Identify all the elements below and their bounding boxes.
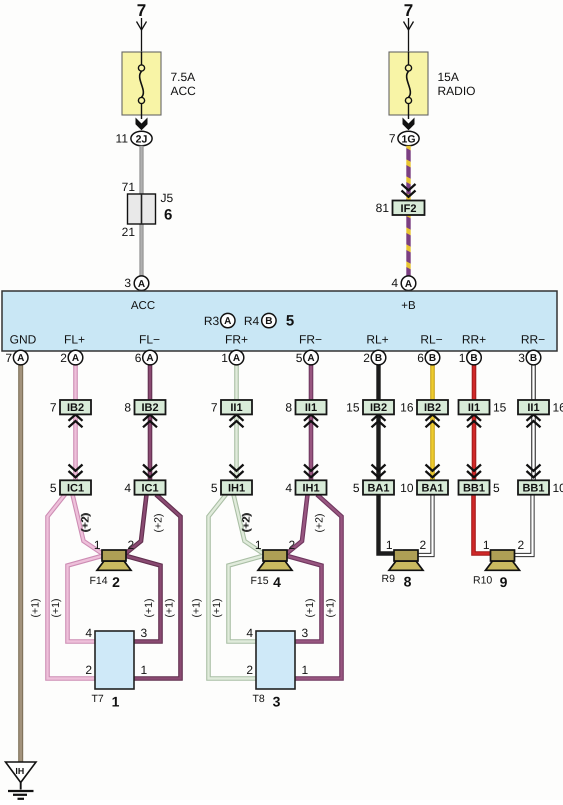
svg-text:8: 8 <box>124 401 131 415</box>
svg-text:(+1): (+1) <box>191 599 203 618</box>
svg-text:1: 1 <box>483 538 490 552</box>
svg-text:II1: II1 <box>468 402 480 414</box>
svg-text:RL−: RL− <box>420 333 442 347</box>
svg-text:IB2: IB2 <box>424 402 441 414</box>
svg-text:F14: F14 <box>90 575 108 587</box>
svg-text:2: 2 <box>128 538 135 552</box>
svg-text:ACC: ACC <box>131 300 155 312</box>
svg-text:3: 3 <box>124 276 131 290</box>
svg-text:FR+: FR+ <box>225 333 248 347</box>
svg-text:+B: +B <box>401 300 416 312</box>
svg-text:15: 15 <box>346 401 360 415</box>
svg-text:1: 1 <box>94 538 101 552</box>
svg-text:7: 7 <box>404 1 413 20</box>
svg-text:7: 7 <box>211 401 218 415</box>
svg-text:6: 6 <box>164 207 172 224</box>
svg-text:(+2): (+2) <box>314 514 326 533</box>
svg-text:IB2: IB2 <box>67 402 84 414</box>
svg-text:BA1: BA1 <box>367 483 389 495</box>
svg-text:(+1): (+1) <box>325 599 337 618</box>
svg-text:2: 2 <box>246 663 253 677</box>
svg-text:5: 5 <box>296 351 303 365</box>
svg-text:1: 1 <box>221 351 228 365</box>
svg-text:A: A <box>307 353 314 364</box>
svg-text:IH1: IH1 <box>302 483 319 495</box>
svg-text:2: 2 <box>289 538 296 552</box>
svg-text:5: 5 <box>50 481 57 495</box>
svg-text:II1: II1 <box>305 402 317 414</box>
svg-text:(+2): (+2) <box>153 514 165 533</box>
svg-text:J5: J5 <box>161 191 174 205</box>
svg-text:5: 5 <box>353 481 360 495</box>
svg-text:4: 4 <box>285 481 292 495</box>
svg-text:A: A <box>146 353 153 364</box>
svg-text:II1: II1 <box>230 402 242 414</box>
svg-text:IB2: IB2 <box>141 402 158 414</box>
svg-text:IH: IH <box>15 766 24 776</box>
svg-text:15A: 15A <box>438 70 459 84</box>
svg-text:2: 2 <box>112 574 120 590</box>
svg-text:B: B <box>265 316 272 327</box>
svg-text:RADIO: RADIO <box>438 84 476 98</box>
svg-text:T7: T7 <box>92 693 104 705</box>
svg-text:1: 1 <box>386 538 393 552</box>
svg-text:1: 1 <box>459 351 466 365</box>
svg-text:T8: T8 <box>253 693 265 705</box>
svg-text:5: 5 <box>493 481 500 495</box>
svg-text:2: 2 <box>60 351 67 365</box>
svg-text:7: 7 <box>50 401 57 415</box>
svg-text:A: A <box>233 353 240 364</box>
svg-text:(+1): (+1) <box>143 599 155 618</box>
svg-text:FL+: FL+ <box>64 333 85 347</box>
svg-text:4: 4 <box>273 574 281 590</box>
svg-text:IH1: IH1 <box>228 483 245 495</box>
svg-text:8: 8 <box>404 574 412 590</box>
svg-text:71: 71 <box>122 180 136 194</box>
svg-text:1: 1 <box>255 538 262 552</box>
svg-text:2J: 2J <box>136 133 148 145</box>
svg-text:R10: R10 <box>473 575 492 587</box>
svg-text:(+2): (+2) <box>241 514 253 533</box>
svg-text:7: 7 <box>5 351 12 365</box>
svg-text:(+2): (+2) <box>80 514 92 533</box>
svg-text:R9: R9 <box>382 573 396 585</box>
svg-text:21: 21 <box>122 225 136 239</box>
svg-text:B: B <box>470 353 477 364</box>
svg-text:R3: R3 <box>204 314 220 328</box>
svg-text:A: A <box>17 353 24 364</box>
svg-text:ACC: ACC <box>171 84 197 98</box>
svg-text:10: 10 <box>400 481 414 495</box>
svg-text:(+1): (+1) <box>164 599 176 618</box>
svg-text:7: 7 <box>137 1 146 20</box>
svg-text:RR−: RR− <box>521 333 545 347</box>
svg-text:IC1: IC1 <box>67 483 84 495</box>
svg-text:IB2: IB2 <box>370 402 387 414</box>
svg-text:(+1): (+1) <box>30 599 42 618</box>
svg-text:5: 5 <box>211 481 218 495</box>
svg-text:BB1: BB1 <box>463 483 485 495</box>
svg-text:6: 6 <box>417 351 424 365</box>
svg-text:BB1: BB1 <box>522 483 544 495</box>
svg-text:4: 4 <box>124 481 131 495</box>
svg-text:3: 3 <box>273 694 281 710</box>
svg-text:IF2: IF2 <box>401 203 417 215</box>
svg-text:5: 5 <box>286 313 294 330</box>
svg-text:10: 10 <box>553 481 563 495</box>
svg-text:1: 1 <box>112 694 120 710</box>
svg-text:2: 2 <box>518 538 525 552</box>
svg-text:(+1): (+1) <box>50 599 62 618</box>
svg-text:RL+: RL+ <box>366 333 388 347</box>
svg-text:BA1: BA1 <box>421 483 443 495</box>
svg-text:II1: II1 <box>527 402 539 414</box>
svg-text:A: A <box>72 353 79 364</box>
svg-text:2: 2 <box>420 538 427 552</box>
svg-text:(+1): (+1) <box>304 599 316 618</box>
svg-text:16: 16 <box>400 401 414 415</box>
svg-text:1G: 1G <box>401 133 415 145</box>
svg-text:4: 4 <box>246 626 253 640</box>
svg-text:B: B <box>375 353 382 364</box>
svg-text:4: 4 <box>85 626 92 640</box>
svg-text:7: 7 <box>389 132 396 146</box>
svg-text:3: 3 <box>518 351 525 365</box>
svg-text:R4: R4 <box>244 314 260 328</box>
svg-text:FR−: FR− <box>299 333 322 347</box>
svg-text:16: 16 <box>553 401 563 415</box>
svg-text:15: 15 <box>493 401 507 415</box>
svg-text:A: A <box>224 316 231 327</box>
svg-text:2: 2 <box>363 351 370 365</box>
svg-text:8: 8 <box>285 401 292 415</box>
svg-text:B: B <box>530 353 537 364</box>
svg-text:3: 3 <box>302 626 309 640</box>
svg-text:(+1): (+1) <box>211 599 223 618</box>
svg-text:81: 81 <box>376 201 390 215</box>
svg-text:GND: GND <box>10 333 37 347</box>
svg-text:2: 2 <box>85 663 92 677</box>
svg-text:4: 4 <box>391 276 398 290</box>
svg-text:7.5A: 7.5A <box>171 70 196 84</box>
svg-text:RR+: RR+ <box>462 333 486 347</box>
svg-text:11: 11 <box>116 132 129 146</box>
svg-text:1: 1 <box>141 663 148 677</box>
svg-text:3: 3 <box>141 626 148 640</box>
svg-text:B: B <box>429 353 436 364</box>
svg-text:9: 9 <box>500 574 508 590</box>
svg-text:6: 6 <box>135 351 142 365</box>
svg-text:A: A <box>138 279 145 290</box>
svg-text:FL−: FL− <box>139 333 160 347</box>
svg-text:A: A <box>405 279 412 290</box>
svg-text:IC1: IC1 <box>141 483 158 495</box>
svg-text:1: 1 <box>302 663 309 677</box>
svg-text:F15: F15 <box>251 575 269 587</box>
